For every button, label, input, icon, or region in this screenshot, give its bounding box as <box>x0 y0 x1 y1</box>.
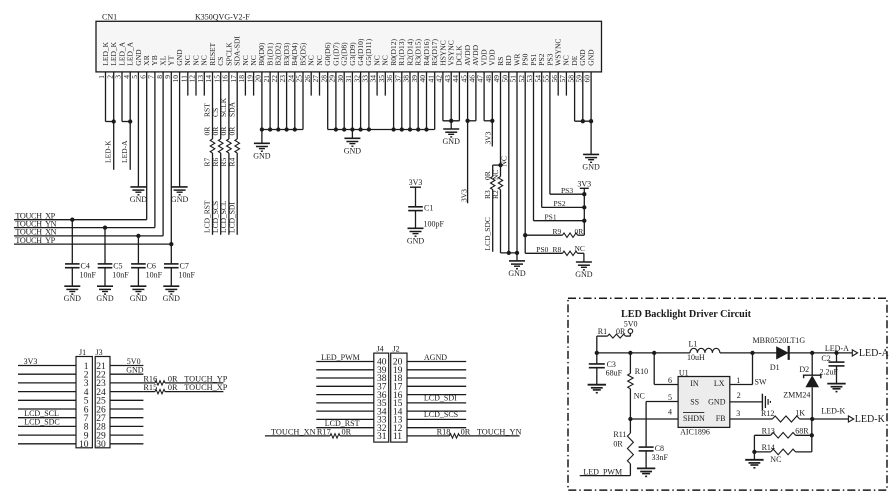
J2 pin 11 wire <box>393 432 520 442</box>
ground R8 row <box>575 262 593 279</box>
svg-text:ZMM24: ZMM24 <box>783 391 810 400</box>
svg-text:1: 1 <box>736 376 740 385</box>
CN1 pin 34 (NC) wire + number <box>369 55 382 95</box>
J4 pin 32 wire <box>316 424 386 434</box>
svg-text:0R: 0R <box>613 439 623 448</box>
J1 pin 2 wire <box>18 371 89 381</box>
J3 pin 28 wire <box>96 423 143 433</box>
svg-text:R13: R13 <box>762 426 775 435</box>
svg-text:LED-K: LED-K <box>821 407 845 416</box>
CN1 pin 8 (XL) wire + number <box>155 55 168 236</box>
net label LCD_SCL J1 pin7 <box>24 409 59 418</box>
svg-text:GND: GND <box>126 366 144 375</box>
CN1 pin 45 (AVDD) wire + number <box>459 44 472 203</box>
CN1 pin 58 (DE) wire + number <box>566 55 579 121</box>
capacitor C3 68uF <box>589 353 623 385</box>
wire pin3 to pin4 junction, net LED-A <box>120 119 132 163</box>
svg-text:R11: R11 <box>613 430 626 439</box>
CN1 pin 30 (G2(D8)) wire + number <box>336 42 349 130</box>
svg-text:C5: C5 <box>113 262 122 271</box>
svg-text:LED Backlight Driver Circuit: LED Backlight Driver Circuit <box>621 309 752 320</box>
J3 pin 27 wire <box>96 414 143 424</box>
power 3V3 pull-up rail <box>577 179 591 235</box>
CN1 pin 44 (DCLK) wire + number <box>451 45 464 121</box>
resistor R13 68R <box>754 419 814 452</box>
J4 pin 34 wire <box>316 407 386 417</box>
CN1 pin 33 (G5(D11)) wire + number <box>361 38 374 129</box>
connector J4 body <box>374 344 389 442</box>
svg-text:C4: C4 <box>81 262 90 271</box>
op-amp U1 AIC1896 body <box>678 368 730 436</box>
CN1 pin 29 (G1(D7)) wire + number <box>328 42 341 130</box>
CN1 pin 24 (B4(D4)) wire + number <box>286 42 299 129</box>
wire net TOUCH_XN row <box>14 228 163 237</box>
CN1 pin 6 (XR) wire + number <box>138 55 151 219</box>
svg-text:10: 10 <box>79 440 89 450</box>
svg-text:GND: GND <box>163 294 181 303</box>
CN1 pin 4 (LED_A) wire + number <box>122 41 135 169</box>
net label LCD_SCS J2 pin13 <box>424 410 458 419</box>
ground C5 <box>96 286 114 303</box>
svg-text:GND: GND <box>130 294 148 303</box>
CN1 pin 36 (R0(D12)) wire + number <box>385 39 398 130</box>
ground C7 <box>163 286 181 303</box>
CN1 pin 1 (LED_K) wire + number <box>97 41 110 121</box>
J4 pin 39 wire <box>316 366 386 376</box>
wire pins 42-44 join <box>443 119 460 129</box>
J4 pin 35 wire <box>316 399 386 409</box>
svg-text:GND: GND <box>130 195 148 204</box>
CN1 pin 2 (LED_K) wire + number <box>105 41 118 169</box>
resistor R7 0R on pin 14, net RST <box>203 103 215 233</box>
J3 pin 23 wire <box>96 379 143 389</box>
svg-text:NC: NC <box>634 392 645 401</box>
J2 pin 20 wire <box>393 358 466 368</box>
J2 pin 13 wire <box>393 416 466 426</box>
J1 pin 3 wire <box>18 379 89 389</box>
CN1 pin 37 (R1(D13)) wire + number <box>393 39 406 130</box>
CN1 pin 46 (AVDD) wire + number <box>468 44 481 120</box>
svg-text:LCD_SCL: LCD_SCL <box>24 409 59 418</box>
svg-text:C6: C6 <box>147 262 156 271</box>
svg-text:LED-A: LED-A <box>859 348 890 359</box>
svg-text:GND: GND <box>575 270 593 279</box>
J2 pin 12 wire <box>393 424 466 434</box>
CN1 pin 35 (NC) wire + number <box>377 55 390 95</box>
svg-text:J1: J1 <box>79 348 86 357</box>
ground C4 <box>64 286 82 303</box>
wire net PS3 row <box>550 186 587 196</box>
net label LCD_SDC J1 pin8 <box>24 418 60 427</box>
svg-text:SS: SS <box>690 397 699 406</box>
svg-text:3V3: 3V3 <box>409 178 423 187</box>
svg-text:3V3: 3V3 <box>484 131 493 144</box>
svg-text:K350QVG-V2-F: K350QVG-V2-F <box>195 12 250 21</box>
svg-text:GND: GND <box>96 294 114 303</box>
wire net LED_PWM <box>580 467 631 476</box>
svg-text:60: 60 <box>583 75 592 83</box>
svg-text:0R: 0R <box>227 127 236 136</box>
J1 pin 1 wire <box>18 362 89 372</box>
resistor R4 0R on pin 17, net SDA <box>227 101 239 233</box>
CN1 pin 57 (NC) wire + number <box>558 55 571 95</box>
svg-text:MBR0520LT1G: MBR0520LT1G <box>753 336 806 345</box>
terminal LED-K <box>821 407 885 425</box>
ground pin5 <box>130 187 148 204</box>
svg-text:0R: 0R <box>168 383 178 392</box>
svg-text:0R: 0R <box>168 374 178 383</box>
CN1 pin 43 (VSYNC) wire + number <box>443 40 456 121</box>
CN1 pin 50 (RD) wire + number <box>500 55 513 253</box>
J3 pin 29 wire <box>96 431 143 441</box>
node pin49 split, label NC <box>493 156 509 167</box>
net label GND J3 pin22 <box>126 366 144 375</box>
resistor R18 0R to TOUCH_YN on J2 pin11 <box>437 427 522 438</box>
J3 pin 25 wire <box>96 397 143 407</box>
svg-text:5: 5 <box>668 393 672 402</box>
CN1 pin 12 (NC) wire + number <box>188 55 201 95</box>
svg-text:R2: R2 <box>491 190 500 199</box>
svg-text:R1: R1 <box>598 327 607 336</box>
svg-text:TOUCH_XP: TOUCH_XP <box>184 383 228 392</box>
J2 pin 14 wire <box>393 407 466 417</box>
svg-text:0R: 0R <box>461 427 471 436</box>
svg-text:PS3: PS3 <box>561 186 573 195</box>
svg-text:SDA: SDA <box>227 101 236 117</box>
svg-text:1K: 1K <box>795 409 805 418</box>
J2 pin 15 wire <box>393 399 466 409</box>
capacitor C2 2.2uF <box>820 353 845 384</box>
J4 pin 40 wire <box>316 358 386 368</box>
svg-text:SHDN: SHDN <box>683 414 705 423</box>
CN1 pin 18 (NC) wire + number <box>237 55 250 95</box>
svg-text:R4: R4 <box>227 157 236 166</box>
svg-text:GND: GND <box>582 162 600 171</box>
svg-text:LCD_SCS: LCD_SCS <box>424 410 458 419</box>
svg-text:LX: LX <box>714 379 725 388</box>
J2 pin 18 wire <box>393 374 466 384</box>
ground C6 <box>130 286 148 303</box>
svg-text:R17: R17 <box>317 427 331 436</box>
CN1 pin 54 (PS2) wire + number <box>533 53 546 207</box>
ground R13/R14 node <box>745 460 763 468</box>
svg-text:L1: L1 <box>689 340 698 349</box>
J1 pin 10 wire <box>18 440 89 450</box>
svg-text:2.2uF: 2.2uF <box>820 368 839 377</box>
connector J3 body <box>95 348 110 448</box>
resistor R6 0R on pin 15, net CS <box>211 108 223 233</box>
svg-text:5V0: 5V0 <box>624 320 638 329</box>
svg-text:31: 31 <box>377 432 387 442</box>
J1 pin 9 wire <box>18 431 89 441</box>
svg-text:GND: GND <box>407 236 425 245</box>
svg-text:TOUCH_YN: TOUCH_YN <box>477 427 522 436</box>
net label AGND J2 pin20 <box>424 353 447 362</box>
wire gnd bus pins 49-51 <box>501 251 520 261</box>
svg-text:AIC1896: AIC1896 <box>680 428 710 437</box>
svg-text:GND: GND <box>508 269 526 278</box>
wire gnd bus pins 28-41 <box>328 127 435 138</box>
svg-text:NC: NC <box>575 244 585 253</box>
CN1 pin 49 (RS) wire + number <box>492 57 505 253</box>
svg-text:LCD_SDC: LCD_SDC <box>24 418 60 427</box>
CN1 pin 26 (NC) wire + number <box>303 55 316 95</box>
svg-text:6: 6 <box>668 376 672 385</box>
J3 pin 30 wire <box>96 440 143 450</box>
CN1 pin 10 (GND) wire + number <box>171 49 184 187</box>
svg-text:GND: GND <box>344 146 362 155</box>
svg-text:10uH: 10uH <box>687 353 705 362</box>
svg-text:5V0: 5V0 <box>127 357 141 366</box>
wire net PS2 row <box>542 199 587 209</box>
ground pins 28-41 <box>344 138 362 155</box>
net label LCD_RST J4 pin32 <box>325 419 360 428</box>
wire U1 pin1 LX to SW node <box>730 353 767 387</box>
svg-text:R12: R12 <box>761 409 774 418</box>
svg-text:SW: SW <box>755 378 767 387</box>
svg-text:68R: 68R <box>795 426 809 435</box>
J1 pin 8 wire <box>18 423 89 433</box>
svg-text:4: 4 <box>668 408 672 417</box>
wire gnd bus pins 20-25 <box>260 127 303 143</box>
svg-text:100pF: 100pF <box>424 220 445 229</box>
svg-text:3V3: 3V3 <box>460 189 469 202</box>
svg-text:LED-A: LED-A <box>825 344 849 353</box>
CN1 pin 31 (G3(D9)) wire + number <box>344 42 357 130</box>
svg-text:R10: R10 <box>635 367 648 376</box>
CN1 pin 60 (GND) wire + number <box>583 49 596 155</box>
CN1 pin 20 (B0(D0)) wire + number <box>254 42 267 129</box>
J1 pin 4 wire <box>18 388 89 398</box>
svg-text:LED_PWM: LED_PWM <box>583 467 622 476</box>
wire pins 47-48 VDD join, net 3V3 <box>484 119 495 145</box>
capacitor C5 10nF <box>98 225 130 286</box>
CN1 pin 13 (NC) wire + number <box>196 55 209 95</box>
svg-text:R8: R8 <box>553 245 562 254</box>
svg-text:R14: R14 <box>762 443 775 452</box>
wire pin1 to pin2 junction, net LED-K <box>104 119 116 163</box>
J1 pin 6 wire <box>18 405 89 415</box>
CN1 pin 23 (B3(D3)) wire + number <box>278 42 291 129</box>
svg-text:D2: D2 <box>799 365 809 374</box>
capacitor C7 10nF <box>164 242 196 286</box>
capacitor C6 10nF <box>131 234 163 286</box>
CN1 pin 3 (LED_A) wire + number <box>114 41 127 121</box>
ground pin10 <box>171 187 189 204</box>
wire U1 pin6 IN branch <box>654 353 678 385</box>
svg-text:C8: C8 <box>655 444 664 453</box>
J1 pin 7 wire <box>18 414 89 424</box>
ground C8 <box>637 468 655 476</box>
ground pins 42-44 <box>443 129 461 146</box>
svg-text:J4: J4 <box>377 344 384 353</box>
resistor R14 NC <box>752 443 812 464</box>
net label LED_PWM J4 pin40 <box>321 353 360 362</box>
svg-text:10nF: 10nF <box>179 270 196 279</box>
ground C2 <box>827 384 845 392</box>
svg-text:0R: 0R <box>575 227 584 236</box>
svg-text:PS2: PS2 <box>554 199 566 208</box>
J1 pin 5 wire <box>18 397 89 407</box>
svg-text:D1: D1 <box>770 363 780 372</box>
wire pins 45-46 AVDD join, net 3V3 <box>460 119 476 202</box>
terminal LED-A <box>825 344 890 359</box>
J3 pin 22 wire <box>96 371 143 381</box>
ground pins 20-25 <box>253 143 271 160</box>
svg-text:NC: NC <box>500 156 509 166</box>
CN1 pin 48 (VDD) wire + number <box>484 49 497 147</box>
ground pins 58-60 <box>582 154 600 171</box>
CN1 pin 7 (YB) wire + number <box>147 55 160 227</box>
svg-text:0R: 0R <box>342 427 352 436</box>
svg-text:10nF: 10nF <box>112 270 129 279</box>
svg-text:PS1: PS1 <box>545 212 557 221</box>
resistor R3 0R, net LCD_SDC <box>483 165 495 252</box>
CN1 pin 52 (PS0) wire + number <box>517 53 530 253</box>
J2 pin 16 wire <box>393 391 466 401</box>
inductor L1 10uH <box>687 340 720 362</box>
net label LCD_SDI J2 pin15 <box>424 394 457 403</box>
J2 pin 17 wire <box>393 383 466 393</box>
svg-text:R18: R18 <box>437 427 451 436</box>
svg-text:33nF: 33nF <box>652 453 669 462</box>
CN1 pin 59 (GND) wire + number <box>575 49 588 121</box>
svg-text:TOUCH YP: TOUCH YP <box>15 236 55 245</box>
wire main 5V rail <box>595 351 854 355</box>
wire net TOUCH_XP row <box>14 212 147 221</box>
J3 pin 26 wire <box>96 405 143 415</box>
svg-text:PS0: PS0 <box>536 245 548 254</box>
svg-text:LED-A: LED-A <box>120 140 129 163</box>
resistor R12 1K on FB row <box>730 409 848 422</box>
svg-text:C7: C7 <box>180 262 189 271</box>
svg-text:AGND: AGND <box>424 353 447 362</box>
J4 pin 31 wire <box>265 432 387 442</box>
resistor R9 0R row <box>523 227 584 238</box>
title LED Backlight Driver Circuit <box>621 309 752 320</box>
CN1 pin 28 (G0(D6)) wire + number <box>319 42 332 130</box>
CN1 pin 40 (R4(D16)) wire + number <box>418 39 431 130</box>
J2 pin 19 wire <box>393 366 466 376</box>
ground U1 pin2 (right-facing) <box>730 391 771 410</box>
CN1 pin 16 (SPCLK) wire + number <box>221 42 234 235</box>
diode D2 ZMM24 (zener) <box>783 353 821 419</box>
svg-text:LED_PWM: LED_PWM <box>321 353 360 362</box>
CN1 pin 53 (PS1) wire + number <box>525 53 538 220</box>
svg-text:LCD_SDI: LCD_SDI <box>424 394 457 403</box>
svg-text:3V3: 3V3 <box>577 179 591 188</box>
CN1 pin 5 (GND) wire + number <box>130 49 143 187</box>
CN1 pin 56 (WSYNC) wire + number <box>550 39 563 96</box>
wire net PS0 row, resistor R8 NC <box>525 244 585 262</box>
svg-text:J2: J2 <box>393 344 400 353</box>
diode D1 MBR0520LT1G <box>753 336 806 372</box>
ground pins 49-51 <box>508 261 526 278</box>
J4 pin 38 wire <box>316 374 386 384</box>
CN1 pin 39 (R3(D15)) wire + number <box>410 39 423 130</box>
CN1 pin 27 (NC) wire + number <box>311 55 324 95</box>
CN1 pin 15 (CS) wire + number <box>212 57 225 235</box>
CN1 pin 42 (HSYNC) wire + number <box>435 40 448 121</box>
power 3V3 above C1 <box>409 178 423 207</box>
svg-text:U1: U1 <box>679 368 689 377</box>
svg-text:GND: GND <box>171 195 189 204</box>
svg-text:LED-K: LED-K <box>855 414 886 425</box>
CN1 pin 9 (YT) wire + number <box>163 55 176 244</box>
svg-text:10nF: 10nF <box>146 270 163 279</box>
svg-text:GND: GND <box>708 397 726 406</box>
wire U1 pin4 SHDN row <box>628 408 678 422</box>
CN1 pin 22 (B2(D2)) wire + number <box>270 42 283 129</box>
resistor R17 0R to TOUCH_XN on J4 pin31 <box>271 427 352 438</box>
net label 3V3 J1 pin1 <box>24 357 38 366</box>
resistor R5 0R on pin 16, net SCLK <box>219 97 231 233</box>
wire pins 58-60 join <box>575 119 594 123</box>
svg-text:GND: GND <box>586 49 595 66</box>
svg-text:IN: IN <box>690 379 699 388</box>
svg-text:10nF: 10nF <box>80 270 97 279</box>
J3 pin 24 wire <box>96 388 143 398</box>
CN1 pin 55 (PS3) wire + number <box>542 53 555 194</box>
resistor R15 0R to TOUCH_XP on J3 pin24 <box>143 383 227 394</box>
J4 pin 36 wire <box>316 391 386 401</box>
svg-text:CN1: CN1 <box>102 12 117 21</box>
net label 5V0 J3 pin21 <box>127 357 141 366</box>
wire net TOUCH_YN row <box>14 219 155 228</box>
svg-text:68uF: 68uF <box>606 369 623 378</box>
capacitor C8 33nF <box>639 444 669 469</box>
CN1 pin 17 (SDA-SDI) wire + number <box>229 36 242 235</box>
svg-text:2: 2 <box>737 391 741 400</box>
ground C3 <box>588 385 606 393</box>
CN1 pin 19 (NC) wire + number <box>245 55 258 95</box>
J4 pin 37 wire <box>316 383 386 393</box>
resistor R1 0R row with 5V0 terminal <box>597 320 638 353</box>
resistor R11 0R <box>613 419 633 476</box>
connector CN1 body K350QVG-V2-F <box>96 12 602 72</box>
backlight driver enclosure (dash-dot border) <box>568 298 887 490</box>
svg-text:GND: GND <box>64 294 82 303</box>
CN1 pin 14 (RESET) wire + number <box>204 42 217 234</box>
CN1 pin 41 (R5(D17)) wire + number <box>426 39 439 130</box>
svg-text:LED-K: LED-K <box>104 140 113 163</box>
resistor R16 0R to TOUCH_YP on J3 pin23 <box>143 374 227 385</box>
svg-text:11: 11 <box>393 432 402 442</box>
svg-text:30: 30 <box>96 440 106 450</box>
J3 pin 21 wire <box>96 362 143 372</box>
CN1 pin 47 (VDD) wire + number <box>476 49 489 121</box>
svg-text:TOUCH_YP: TOUCH_YP <box>184 374 228 383</box>
svg-text:LCD_SDC: LCD_SDC <box>483 217 492 250</box>
wire net TOUCH_YP row <box>14 236 171 245</box>
CN1 pin 25 (B5(D5)) wire + number <box>295 42 308 129</box>
svg-text:TOUCH_XN: TOUCH_XN <box>271 427 316 436</box>
svg-text:GND: GND <box>253 151 271 160</box>
wire U1 pin5 SS to C8 <box>646 393 678 447</box>
svg-text:3: 3 <box>736 409 740 418</box>
capacitor C4 10nF <box>65 218 97 287</box>
wire net PS1 row <box>534 212 587 222</box>
svg-text:GND: GND <box>443 137 461 146</box>
svg-text:NC: NC <box>770 455 781 464</box>
svg-text:3V3: 3V3 <box>24 357 38 366</box>
connector J2 body <box>391 344 407 442</box>
svg-text:C1: C1 <box>424 203 433 212</box>
ground C1 <box>407 228 425 245</box>
CN1 pin 21 (B1(D1)) wire + number <box>262 42 275 129</box>
svg-text:R9: R9 <box>553 227 562 236</box>
svg-text:J3: J3 <box>96 348 103 357</box>
